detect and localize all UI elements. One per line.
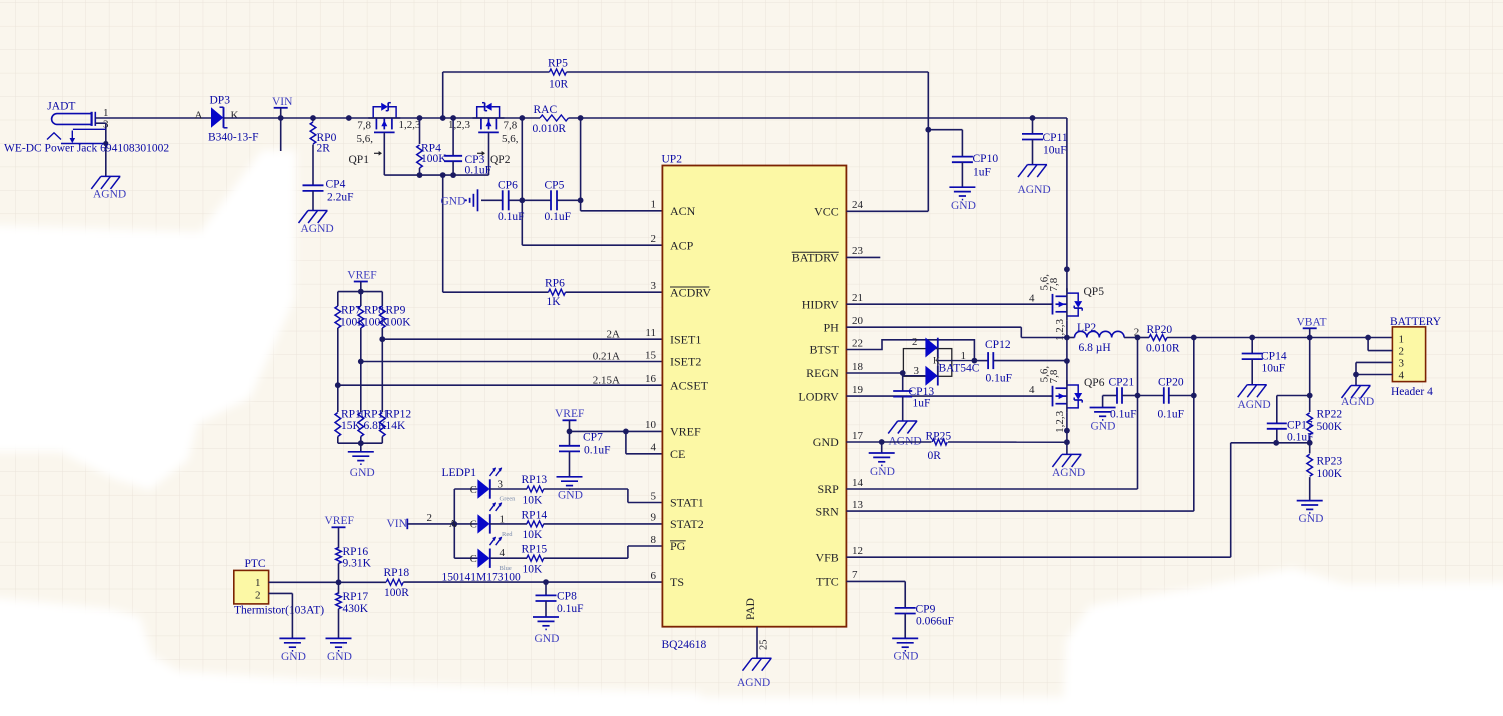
capacitor CP13 1uF bbox=[893, 373, 934, 421]
svg-text:13: 13 bbox=[852, 499, 864, 511]
wire SRN bbox=[846, 338, 1196, 512]
svg-text:CP4: CP4 bbox=[326, 179, 346, 191]
wire ACN bbox=[578, 118, 663, 211]
ground GND (pin17) bbox=[869, 453, 895, 478]
svg-text:2: 2 bbox=[427, 512, 433, 524]
capacitor CP20 0.1uF bbox=[1138, 376, 1194, 420]
svg-text:14K: 14K bbox=[386, 420, 407, 432]
svg-text:VFB: VFB bbox=[815, 550, 838, 564]
svg-text:RP16: RP16 bbox=[343, 546, 369, 558]
capacitor CP10 1uF bbox=[928, 130, 998, 188]
svg-text:RP5: RP5 bbox=[548, 58, 568, 70]
svg-text:6.8 µH: 6.8 µH bbox=[1079, 342, 1111, 354]
svg-text:Green: Green bbox=[500, 495, 517, 502]
svg-text:CP12: CP12 bbox=[985, 339, 1011, 351]
svg-text:4: 4 bbox=[651, 442, 657, 454]
resistor RP12 14K bbox=[380, 413, 386, 444]
wire VIN rail bbox=[224, 115, 1070, 292]
svg-text:GND: GND bbox=[327, 651, 352, 663]
svg-text:16: 16 bbox=[645, 373, 657, 385]
svg-text:DP3: DP3 bbox=[210, 94, 231, 106]
ground GND (RP17) bbox=[326, 638, 352, 663]
wire VBAT divider bbox=[1307, 338, 1313, 501]
IC UP2 BQ24618 body bbox=[662, 154, 847, 652]
svg-text:0R: 0R bbox=[928, 450, 942, 462]
capacitor CP4 2.2uF bbox=[303, 179, 354, 211]
transistor QP2 bbox=[448, 103, 519, 166]
svg-text:11: 11 bbox=[645, 327, 656, 339]
svg-text:C: C bbox=[470, 485, 477, 496]
wire ISET2 bbox=[361, 351, 663, 363]
svg-text:GND: GND bbox=[1091, 420, 1116, 432]
svg-text:9: 9 bbox=[651, 512, 657, 524]
capacitor CP6 0.1uF bbox=[498, 179, 551, 223]
svg-text:0.010R: 0.010R bbox=[1146, 343, 1180, 355]
svg-text:22: 22 bbox=[852, 337, 863, 349]
capacitor CP11 10uF bbox=[1022, 118, 1068, 165]
svg-text:VIN: VIN bbox=[387, 518, 408, 530]
svg-text:QP6: QP6 bbox=[1084, 377, 1105, 389]
svg-text:AGND: AGND bbox=[1238, 399, 1271, 411]
ground GND (PTC) bbox=[279, 638, 306, 663]
svg-text:TS: TS bbox=[670, 575, 684, 589]
power port VREF (CP7) bbox=[555, 408, 584, 432]
resistor RP15 10K and wire PG bbox=[490, 543, 663, 575]
svg-text:TTC: TTC bbox=[816, 575, 839, 589]
resistor RP23 100K bbox=[1307, 454, 1343, 480]
resistor RP25 0R bbox=[926, 431, 952, 463]
svg-text:LODRV: LODRV bbox=[798, 389, 839, 403]
power port VIN bbox=[272, 96, 293, 151]
wire BTST bbox=[846, 340, 977, 364]
svg-text:B340-13-F: B340-13-F bbox=[208, 131, 258, 143]
svg-text:AGND: AGND bbox=[1052, 467, 1085, 479]
svg-text:GND: GND bbox=[535, 633, 560, 645]
wire battery pin2 bbox=[1368, 338, 1392, 351]
svg-text:0.1uF: 0.1uF bbox=[1158, 408, 1185, 420]
svg-text:AGND: AGND bbox=[1341, 396, 1374, 408]
svg-text:10: 10 bbox=[645, 419, 657, 431]
svg-text:VCC: VCC bbox=[814, 205, 839, 219]
svg-text:3: 3 bbox=[1399, 357, 1405, 369]
svg-text:RP13: RP13 bbox=[522, 474, 548, 486]
resistor RP13 10K and wire STAT1 bbox=[490, 474, 663, 506]
svg-text:0.1uF: 0.1uF bbox=[986, 373, 1013, 385]
svg-text:3: 3 bbox=[914, 365, 920, 377]
ground AGND (CP11) bbox=[1018, 165, 1051, 196]
wire GND pin17 bbox=[846, 439, 1067, 453]
svg-text:GND: GND bbox=[350, 467, 375, 479]
svg-text:2: 2 bbox=[651, 233, 657, 245]
svg-text:2: 2 bbox=[912, 336, 918, 348]
resistor RP20 0.010R bbox=[1146, 324, 1180, 354]
svg-text:ACP: ACP bbox=[670, 238, 694, 252]
capacitor CP8 0.1uF bbox=[536, 582, 584, 617]
svg-text:HIDRV: HIDRV bbox=[802, 297, 839, 311]
svg-text:2.15A: 2.15A bbox=[593, 374, 620, 386]
ground GND (CP8) bbox=[533, 617, 559, 645]
LED LEDP1 red element bbox=[470, 502, 513, 538]
transistor QP6 bbox=[1029, 366, 1105, 433]
svg-text:9.31K: 9.31K bbox=[343, 557, 372, 569]
wire ACDRV bbox=[443, 175, 663, 292]
svg-text:BATTERY: BATTERY bbox=[1390, 316, 1442, 328]
svg-text:7,8: 7,8 bbox=[1048, 277, 1060, 291]
wire BATDRV stub bbox=[846, 256, 880, 258]
ground AGND (CP13) bbox=[888, 421, 922, 448]
wire LED common anode bbox=[449, 489, 477, 558]
svg-text:CP6: CP6 bbox=[498, 179, 518, 191]
svg-text:1: 1 bbox=[1399, 333, 1405, 345]
svg-text:STAT1: STAT1 bbox=[670, 496, 704, 510]
ground GND (CP21) bbox=[1090, 408, 1116, 433]
ground GND (CP9) bbox=[892, 638, 918, 662]
label 150141M173100 bbox=[442, 571, 521, 583]
component PTC Thermistor(103AT) bbox=[234, 558, 324, 616]
svg-text:GND: GND bbox=[951, 200, 976, 212]
wire TS bbox=[269, 579, 663, 585]
svg-text:24: 24 bbox=[852, 199, 864, 211]
svg-text:AGND: AGND bbox=[93, 189, 126, 201]
svg-text:QP1: QP1 bbox=[349, 154, 370, 166]
resistor RP0 2R bbox=[310, 118, 336, 185]
resistor RP6 1K bbox=[545, 277, 566, 308]
svg-text:CP11: CP11 bbox=[1043, 132, 1068, 144]
svg-text:SRP: SRP bbox=[817, 482, 839, 496]
wire SRP bbox=[846, 338, 1140, 490]
svg-text:1uF: 1uF bbox=[973, 167, 991, 179]
svg-text:2: 2 bbox=[1399, 346, 1405, 358]
svg-text:Red: Red bbox=[502, 531, 513, 538]
labels RP10 RP11 RP12 bbox=[341, 408, 411, 432]
svg-text:RP15: RP15 bbox=[522, 543, 548, 555]
svg-text:23: 23 bbox=[852, 245, 864, 257]
svg-text:C: C bbox=[470, 554, 477, 565]
LED LEDP1 blue element bbox=[470, 537, 512, 572]
svg-text:GND: GND bbox=[441, 195, 466, 207]
wire ISET1 bbox=[382, 328, 662, 340]
svg-text:CP7: CP7 bbox=[583, 432, 603, 444]
svg-text:0.1uF: 0.1uF bbox=[557, 603, 584, 615]
svg-text:10uF: 10uF bbox=[1262, 363, 1286, 375]
power port VREF (RP16) bbox=[325, 515, 354, 548]
IC UP2 left pin names bbox=[645, 199, 711, 590]
svg-text:0.21A: 0.21A bbox=[593, 351, 620, 363]
svg-text:LP2: LP2 bbox=[1077, 322, 1096, 334]
svg-text:QP5: QP5 bbox=[1084, 286, 1105, 298]
capacitor CP12 0.1uF bbox=[974, 339, 1067, 384]
svg-text:REGN: REGN bbox=[806, 366, 839, 380]
svg-text:PH: PH bbox=[823, 320, 839, 334]
svg-text:RP23: RP23 bbox=[1317, 456, 1343, 468]
wire PAD pin25 bbox=[757, 627, 770, 659]
resistor RP7 100K bbox=[335, 292, 341, 412]
svg-text:500K: 500K bbox=[1317, 421, 1343, 433]
svg-text:GND: GND bbox=[813, 435, 839, 449]
diode DP3 B340-13-F bbox=[195, 94, 259, 143]
svg-text:VBAT: VBAT bbox=[1297, 316, 1327, 328]
svg-text:0.1uF: 0.1uF bbox=[1110, 408, 1137, 420]
svg-text:RP7: RP7 bbox=[341, 304, 361, 316]
diode BAT54C bbox=[903, 336, 979, 386]
wire PTC pin2 bbox=[269, 593, 293, 638]
svg-text:JADT: JADT bbox=[47, 101, 75, 113]
svg-text:CP20: CP20 bbox=[1158, 376, 1184, 388]
svg-text:20: 20 bbox=[852, 315, 864, 327]
svg-text:7,8: 7,8 bbox=[504, 120, 518, 132]
svg-text:0.1uF: 0.1uF bbox=[545, 211, 572, 223]
svg-text:VREF: VREF bbox=[325, 515, 354, 527]
wire VCC bbox=[846, 72, 931, 211]
wire VBAT rail bbox=[1135, 335, 1393, 341]
svg-text:ACN: ACN bbox=[670, 204, 696, 218]
svg-text:100K: 100K bbox=[385, 316, 411, 328]
svg-text:RP12: RP12 bbox=[386, 408, 412, 420]
svg-text:BAT54C: BAT54C bbox=[939, 363, 980, 375]
svg-text:8: 8 bbox=[651, 534, 657, 546]
svg-text:1: 1 bbox=[651, 199, 657, 211]
wire VREF pin10 bbox=[567, 429, 663, 435]
power port VREF (divider) bbox=[347, 269, 376, 291]
svg-text:100K: 100K bbox=[1317, 468, 1343, 480]
svg-text:7,8: 7,8 bbox=[1048, 369, 1060, 383]
svg-text:CP5: CP5 bbox=[545, 179, 565, 191]
capacitor CP3 0.1uF bbox=[444, 118, 491, 176]
svg-text:5: 5 bbox=[651, 490, 657, 502]
svg-text:4: 4 bbox=[1029, 384, 1035, 396]
svg-text:AGND: AGND bbox=[737, 677, 770, 689]
capacitor CP14 10uF bbox=[1242, 338, 1287, 385]
svg-text:PAD: PAD bbox=[745, 598, 757, 620]
svg-text:RP18: RP18 bbox=[384, 567, 410, 579]
transistor QP5 bbox=[1029, 274, 1104, 341]
svg-text:QP2: QP2 bbox=[490, 154, 511, 166]
svg-text:GND: GND bbox=[894, 651, 919, 663]
svg-text:AGND: AGND bbox=[301, 223, 334, 235]
svg-text:1,2,3: 1,2,3 bbox=[1054, 410, 1066, 433]
svg-text:LEDP1: LEDP1 bbox=[442, 467, 477, 479]
svg-text:1,2,3: 1,2,3 bbox=[448, 119, 471, 131]
svg-text:6.8K: 6.8K bbox=[364, 420, 387, 432]
resistor RP18 100R bbox=[384, 567, 410, 599]
ground AGND (PAD) bbox=[737, 658, 772, 689]
svg-text:CP21: CP21 bbox=[1109, 376, 1135, 388]
wire jack pin1 bbox=[95, 117, 211, 119]
svg-text:Header 4: Header 4 bbox=[1391, 386, 1433, 398]
svg-text:15K: 15K bbox=[341, 420, 362, 432]
resistor RP16 9.31K bbox=[336, 546, 372, 594]
svg-text:7,8: 7,8 bbox=[357, 120, 371, 132]
svg-text:BTST: BTST bbox=[809, 343, 839, 357]
svg-text:10K: 10K bbox=[523, 529, 544, 541]
svg-text:6: 6 bbox=[651, 570, 657, 582]
svg-text:RP17: RP17 bbox=[343, 591, 369, 603]
svg-text:A: A bbox=[449, 519, 457, 530]
svg-text:2R: 2R bbox=[317, 143, 331, 155]
wire VFB bbox=[846, 443, 1230, 557]
svg-text:0.1uF: 0.1uF bbox=[1287, 432, 1314, 444]
svg-text:VREF: VREF bbox=[555, 408, 584, 420]
svg-text:25: 25 bbox=[759, 640, 770, 651]
wire PH bbox=[846, 320, 1069, 384]
svg-text:C: C bbox=[470, 520, 477, 531]
wire CE pin4 bbox=[626, 431, 663, 453]
wire ACP bbox=[519, 118, 662, 245]
svg-text:CE: CE bbox=[670, 447, 685, 461]
svg-text:RP14: RP14 bbox=[522, 510, 548, 522]
svg-text:CP8: CP8 bbox=[557, 591, 577, 603]
ground GND (divider) bbox=[348, 452, 375, 479]
svg-text:GND: GND bbox=[281, 651, 306, 663]
svg-text:ISET1: ISET1 bbox=[670, 332, 701, 346]
svg-text:100K: 100K bbox=[421, 153, 447, 165]
svg-text:ACSET: ACSET bbox=[670, 378, 709, 392]
svg-text:0.1uF: 0.1uF bbox=[465, 164, 492, 176]
wire QP6 source bbox=[1064, 412, 1070, 454]
svg-text:RP22: RP22 bbox=[1317, 409, 1343, 421]
transistor QP1 bbox=[349, 103, 422, 166]
ground GND (CP10) bbox=[949, 187, 976, 212]
ground AGND (CP4) bbox=[299, 211, 334, 236]
IC UP2 right pin names bbox=[792, 199, 864, 588]
svg-text:RP8: RP8 bbox=[364, 304, 384, 316]
ground AGND (CP14) bbox=[1238, 385, 1271, 411]
svg-text:VIN: VIN bbox=[272, 96, 293, 108]
svg-text:CP9: CP9 bbox=[916, 604, 936, 616]
capacitor CP17 0.1uF bbox=[1267, 419, 1314, 443]
resistor RP22 500K bbox=[1307, 409, 1343, 435]
svg-text:2.2uF: 2.2uF bbox=[327, 191, 354, 203]
svg-text:0.1uF: 0.1uF bbox=[584, 445, 611, 457]
svg-text:1: 1 bbox=[961, 350, 967, 362]
ground AGND (battery) bbox=[1341, 386, 1374, 409]
ground GND (RP23) bbox=[1297, 501, 1324, 525]
svg-text:3: 3 bbox=[651, 280, 657, 292]
svg-text:0.066uF: 0.066uF bbox=[916, 616, 954, 628]
inductor LP2 6.8uH bbox=[1067, 322, 1139, 354]
svg-text:7: 7 bbox=[852, 569, 858, 581]
svg-text:5,6,: 5,6, bbox=[357, 133, 374, 145]
svg-text:430K: 430K bbox=[343, 603, 369, 615]
wire jack pin3 and switch bbox=[47, 123, 108, 176]
svg-text:CP13: CP13 bbox=[909, 386, 935, 398]
svg-text:2A: 2A bbox=[607, 328, 621, 340]
connector JADT (DC power jack) bbox=[47, 101, 109, 131]
LED LEDP1 green element bbox=[470, 467, 516, 502]
svg-text:10uF: 10uF bbox=[1043, 145, 1067, 157]
svg-text:RP20: RP20 bbox=[1147, 324, 1173, 336]
resistor RP14 10K and wire STAT2 bbox=[490, 510, 663, 541]
wire battery pins34 bbox=[1353, 362, 1392, 385]
svg-text:Thermistor(103AT): Thermistor(103AT) bbox=[234, 604, 324, 616]
capacitor CP5 0.1uF bbox=[545, 179, 581, 223]
svg-text:RP9: RP9 bbox=[386, 304, 406, 316]
resistor RP11 6.8K bbox=[358, 413, 364, 444]
svg-text:5,6,: 5,6, bbox=[502, 133, 519, 145]
svg-text:AGND: AGND bbox=[1018, 184, 1051, 196]
svg-text:CP14: CP14 bbox=[1261, 351, 1287, 363]
svg-text:100R: 100R bbox=[384, 587, 409, 599]
svg-text:GND: GND bbox=[870, 466, 895, 478]
wire LODRV bbox=[846, 395, 1052, 397]
wire ACSET bbox=[338, 374, 663, 386]
connector BATTERY Header 4 bbox=[1390, 316, 1442, 398]
label LEDP1 bbox=[442, 467, 477, 479]
svg-text:K: K bbox=[231, 110, 239, 122]
svg-text:19: 19 bbox=[852, 384, 864, 396]
svg-text:RAC: RAC bbox=[534, 104, 558, 116]
svg-text:4: 4 bbox=[1399, 369, 1405, 381]
power port VBAT bbox=[1297, 316, 1327, 337]
capacitor CP9 0.066uF bbox=[895, 604, 954, 639]
svg-text:RP6: RP6 bbox=[545, 277, 565, 289]
svg-text:GND: GND bbox=[1299, 513, 1324, 525]
capacitor CP21 0.1uF bbox=[1103, 376, 1138, 420]
svg-text:14: 14 bbox=[852, 477, 864, 489]
svg-text:1uF: 1uF bbox=[913, 398, 931, 410]
wire REGN bbox=[846, 370, 905, 376]
svg-text:12: 12 bbox=[852, 545, 863, 557]
wire divider rails bbox=[335, 289, 385, 452]
svg-text:10R: 10R bbox=[549, 78, 569, 90]
svg-text:0.010R: 0.010R bbox=[533, 123, 567, 135]
wire CP17 branch bbox=[1231, 396, 1310, 446]
svg-text:1: 1 bbox=[255, 577, 261, 589]
svg-text:UP2: UP2 bbox=[662, 154, 683, 166]
wire gate loop bbox=[384, 134, 488, 178]
svg-text:1K: 1K bbox=[547, 296, 562, 308]
resistor RP4 100K bbox=[417, 118, 448, 175]
capacitor CP7 0.1uF bbox=[559, 431, 611, 476]
ground GND (rotated, CP6) bbox=[441, 189, 503, 211]
power port VIN (LED) bbox=[387, 512, 455, 530]
svg-text:17: 17 bbox=[852, 430, 864, 442]
svg-text:CP10: CP10 bbox=[973, 153, 999, 165]
svg-text:VREF: VREF bbox=[670, 425, 701, 439]
resistor RP8 100K bbox=[358, 292, 364, 412]
svg-text:RP25: RP25 bbox=[926, 431, 952, 443]
svg-text:A: A bbox=[195, 110, 203, 122]
svg-text:2: 2 bbox=[255, 589, 261, 601]
resistor RP10 15K bbox=[335, 413, 341, 444]
svg-text:1,2,3: 1,2,3 bbox=[399, 119, 422, 131]
svg-text:ISET2: ISET2 bbox=[670, 355, 701, 369]
labels RP7 RP8 RP9 bbox=[340, 304, 411, 328]
svg-text:VREF: VREF bbox=[347, 269, 376, 281]
wire TTC bbox=[846, 581, 905, 607]
resistor RAC 0.010R bbox=[533, 104, 569, 135]
svg-text:18: 18 bbox=[852, 361, 864, 373]
svg-text:SRN: SRN bbox=[815, 504, 839, 518]
svg-text:4: 4 bbox=[1029, 292, 1035, 304]
ground AGND (jack) bbox=[91, 176, 126, 200]
ground GND (CP7) bbox=[557, 477, 583, 502]
svg-text:BQ24618: BQ24618 bbox=[662, 639, 707, 651]
wire HIDRV bbox=[846, 303, 1052, 305]
resistor RP9 100K bbox=[380, 292, 386, 412]
svg-text:STAT2: STAT2 bbox=[670, 517, 704, 531]
resistor RP5 10R bbox=[443, 58, 929, 119]
svg-text:GND: GND bbox=[558, 490, 583, 502]
svg-text:15: 15 bbox=[645, 349, 657, 361]
svg-text:0.1uF: 0.1uF bbox=[498, 211, 525, 223]
resistor RP17 430K bbox=[336, 591, 369, 638]
svg-text:10K: 10K bbox=[523, 564, 544, 576]
svg-text:PTC: PTC bbox=[245, 558, 266, 570]
ground AGND (QP6) bbox=[1052, 454, 1085, 479]
svg-text:WE-DC Power Jack 694108301002: WE-DC Power Jack 694108301002 bbox=[4, 143, 169, 155]
svg-text:21: 21 bbox=[852, 292, 863, 304]
